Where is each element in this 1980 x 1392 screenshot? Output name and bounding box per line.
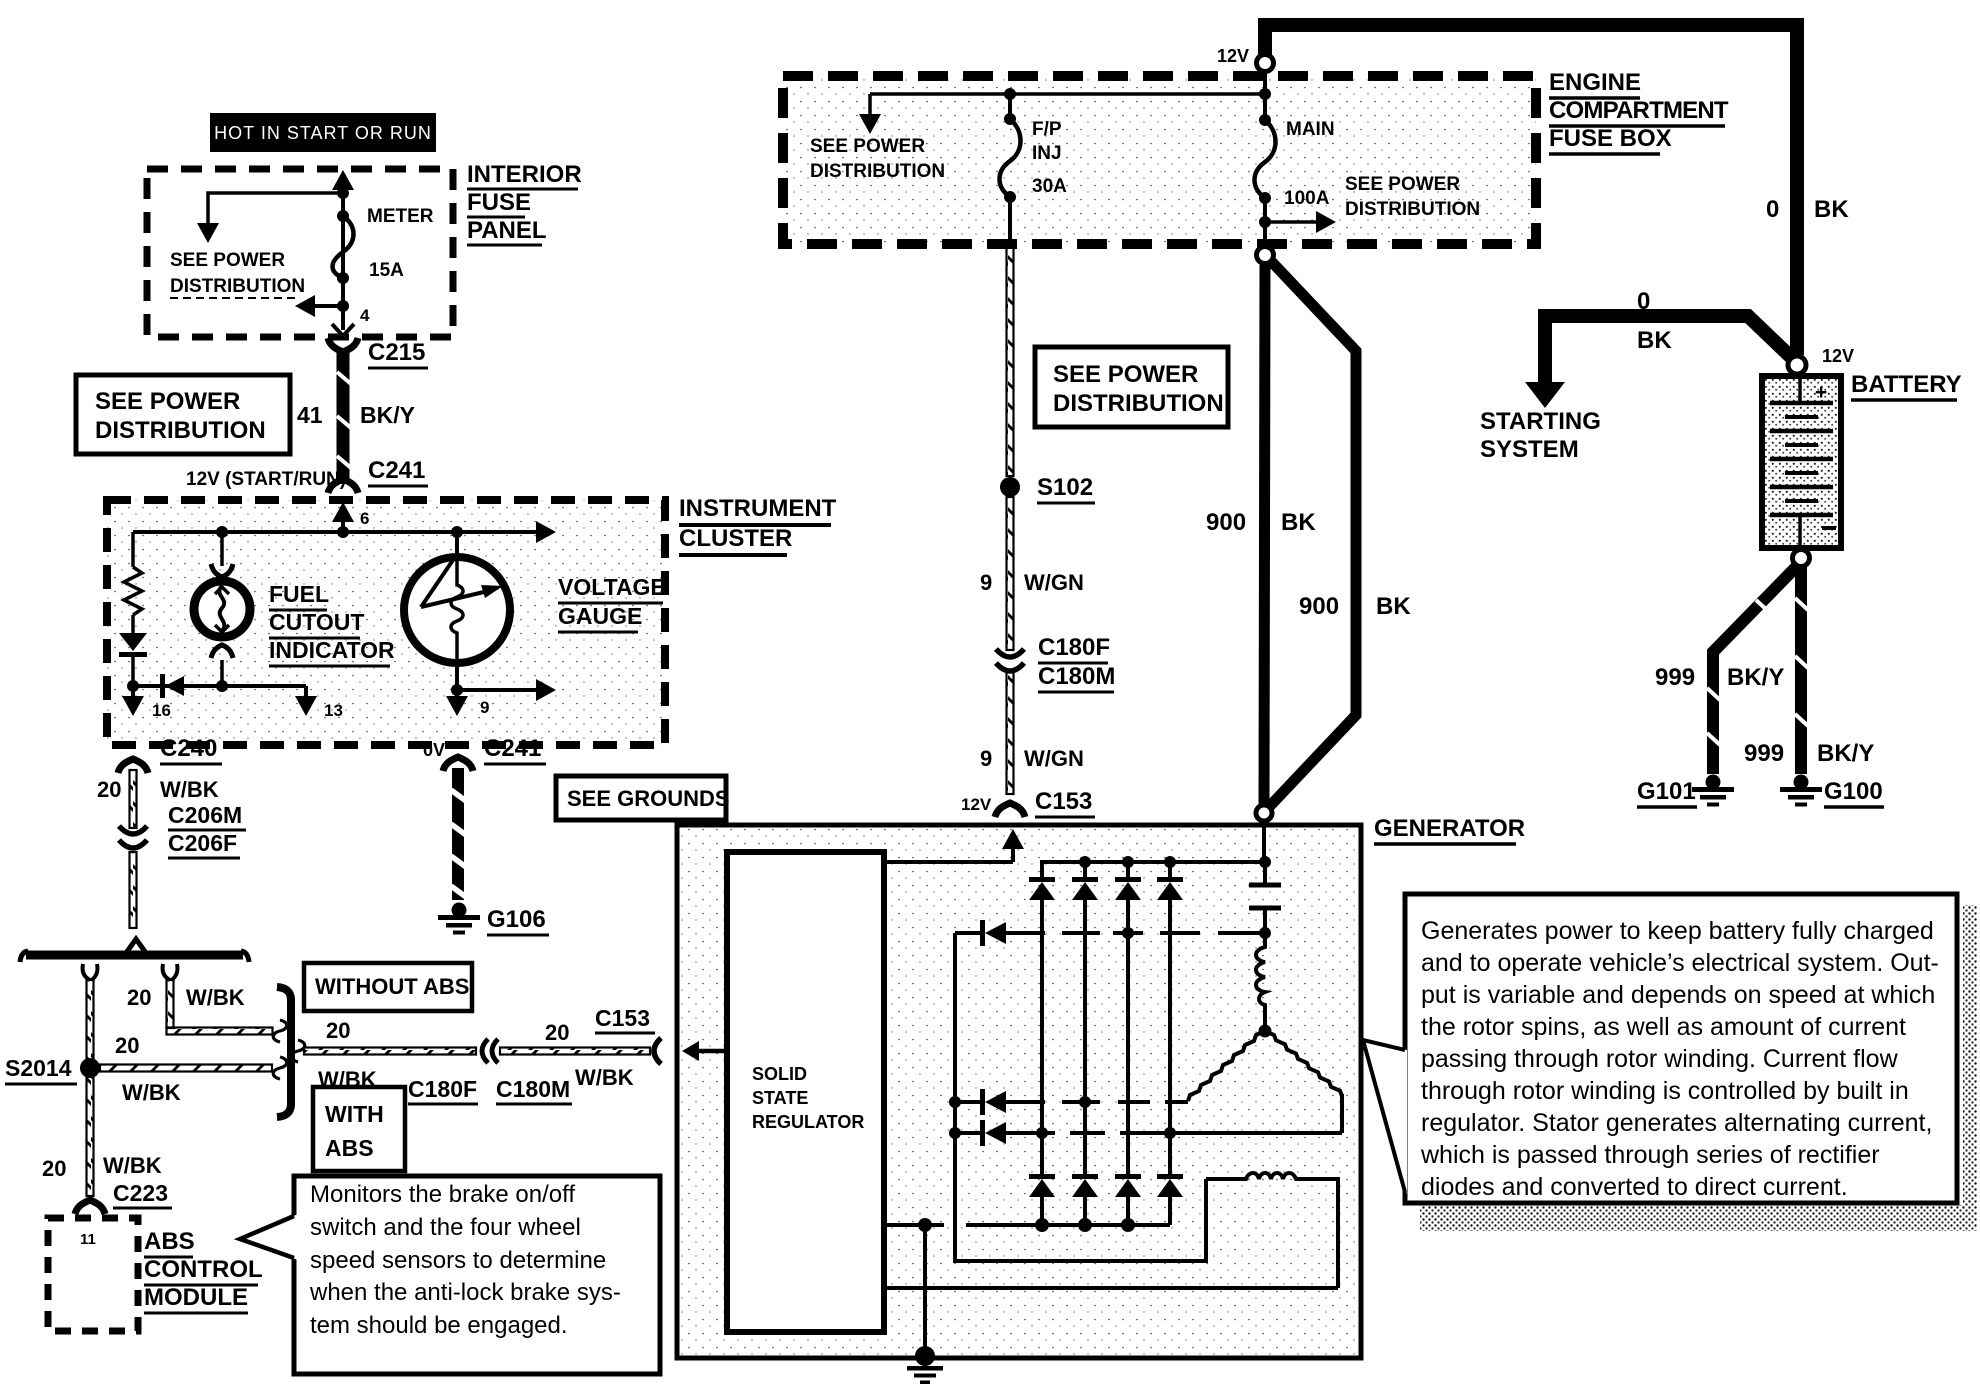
svg-text:BK: BK	[1376, 593, 1411, 620]
svg-text:switch and the four wheel: switch and the four wheel	[310, 1214, 581, 1241]
svg-text:C223: C223	[113, 1180, 168, 1206]
wire pin 4 exit with left arrow	[295, 278, 370, 336]
svg-text:FUSE: FUSE	[467, 189, 531, 216]
diode (rectifier top 4)	[1157, 862, 1183, 1176]
ABS control module box	[48, 1218, 138, 1331]
stator winding	[1188, 1025, 1342, 1134]
svg-text:30A: 30A	[1032, 176, 1067, 197]
diode (rectifier bottom 3)	[1115, 1174, 1141, 1225]
svg-text:INJ: INJ	[1032, 143, 1062, 164]
wire 20 W/BK C223	[113, 1180, 172, 1208]
svg-text:0: 0	[1766, 196, 1779, 223]
svg-text:999: 999	[1744, 740, 1784, 767]
svg-text:STARTING: STARTING	[1480, 408, 1601, 435]
wire 9 W/GN (fuse to S102)	[1007, 246, 1014, 476]
label INTERIOR FUSE PANEL	[467, 161, 582, 245]
svg-text:C180M: C180M	[496, 1076, 570, 1102]
svg-text:ABS: ABS	[325, 1135, 374, 1161]
svg-text:4: 4	[360, 306, 370, 325]
svg-text:100A: 100A	[1284, 188, 1330, 209]
svg-text:W/BK: W/BK	[318, 1067, 377, 1092]
svg-text:VOLTAGE: VOLTAGE	[558, 574, 666, 600]
svg-text:SEE POWER: SEE POWER	[810, 136, 925, 157]
wire 20 W/BK (C240 to splice)	[97, 770, 219, 928]
svg-text:20: 20	[97, 777, 121, 802]
svg-text:W/BK: W/BK	[103, 1153, 162, 1178]
svg-text:Monitors the brake on/off: Monitors the brake on/off	[310, 1181, 575, 1208]
ground G100	[1780, 775, 1884, 808]
connector circle (below MAIN fuse)	[1257, 247, 1274, 264]
splice S102	[1000, 474, 1095, 503]
instrument cluster box	[107, 500, 665, 745]
diode (rectifier top 1)	[1029, 877, 1055, 1176]
svg-text:INSTRUMENT: INSTRUMENT	[679, 495, 837, 522]
fuse METER 15A	[333, 206, 434, 284]
svg-text:W/GN: W/GN	[1024, 570, 1084, 595]
svg-text:Generates power to keep batter: Generates power to keep battery fully ch…	[1421, 917, 1934, 945]
wire field feed with diode	[955, 920, 1271, 946]
svg-text:W/GN: W/GN	[1024, 746, 1084, 771]
wire 9 W/GN (C180M to C153)	[980, 672, 1084, 794]
svg-text:PANEL: PANEL	[467, 217, 547, 244]
wire 999 BK/Y (to G100)	[1744, 566, 1874, 774]
svg-text:C241: C241	[368, 457, 425, 484]
engine compartment fuse box	[783, 76, 1536, 244]
svg-text:999: 999	[1655, 664, 1695, 691]
wire 0 BK (top feed to battery)	[1265, 25, 1849, 355]
svg-text:SEE GROUNDS: SEE GROUNDS	[567, 786, 730, 811]
svg-text:regulator. Stator generates a: regulator. Stator generates alternating …	[1421, 1109, 1932, 1137]
resistor (cluster left branch)	[124, 532, 142, 633]
svg-text:C206F: C206F	[168, 830, 237, 856]
options bracket	[277, 987, 291, 1117]
diode (rectifier bottom 1)	[1029, 1174, 1055, 1225]
svg-text:put is variable and depends on: put is variable and depends on speed at …	[1421, 981, 1935, 1009]
callout monitors brake text box	[240, 1176, 660, 1374]
diode (rectifier top 2)	[1072, 862, 1098, 1176]
box SEE POWER DISTRIBUTION (left)	[76, 375, 290, 454]
diode (cluster bottom horizontal)	[127, 674, 306, 698]
label HOT IN START OR RUN	[210, 113, 436, 152]
svg-text:G100: G100	[1824, 778, 1883, 805]
svg-text:CONTROL: CONTROL	[144, 1256, 263, 1283]
svg-text:12V: 12V	[961, 795, 992, 814]
label ABS CONTROL MODULE	[144, 1228, 263, 1313]
wire S2014 drop from bus	[42, 964, 162, 1196]
svg-text:20: 20	[115, 1033, 139, 1058]
ground G101	[1637, 775, 1734, 808]
svg-text:BK: BK	[1814, 196, 1849, 223]
solid state regulator box	[727, 852, 884, 1332]
callout generator description box	[1363, 894, 1977, 1231]
ground (generator)	[907, 1346, 943, 1384]
svg-text:DISTRIBUTION: DISTRIBUTION	[1345, 199, 1480, 220]
svg-text:ABS: ABS	[144, 1228, 195, 1255]
connector C180F C180M (vertical)	[996, 634, 1115, 692]
svg-text:SYSTEM: SYSTEM	[1480, 436, 1579, 463]
wire 900 BK (right run)	[1269, 260, 1411, 807]
svg-text:0: 0	[1637, 288, 1650, 315]
svg-text:0V: 0V	[423, 740, 445, 760]
connector circle 12V	[1257, 55, 1274, 72]
svg-text:6: 6	[360, 509, 369, 528]
svg-text:900: 900	[1206, 509, 1246, 536]
wire 900 BK (left run)	[1206, 263, 1316, 806]
svg-text:FUSE BOX: FUSE BOX	[1549, 125, 1672, 152]
wire starting system	[1525, 288, 1794, 408]
svg-text:STATE: STATE	[752, 1088, 808, 1108]
svg-text:through rotor winding is contr: through rotor winding is controlled by b…	[1421, 1077, 1909, 1105]
svg-text:COMPARTMENT: COMPARTMENT	[1549, 97, 1729, 124]
connector circle (battery bottom)	[1793, 550, 1810, 567]
diode (cluster left, pointing down)	[119, 633, 147, 686]
svg-text:BATTERY: BATTERY	[1851, 371, 1962, 398]
svg-text:F/P: F/P	[1032, 119, 1062, 140]
svg-text:12V (START/RUN): 12V (START/RUN)	[186, 469, 346, 490]
label SEE POWER DISTRIBUTION (fuse box left)	[810, 136, 945, 182]
svg-text:11: 11	[80, 1231, 96, 1248]
wire pin 16 exit	[122, 686, 171, 720]
voltage gauge	[404, 532, 510, 663]
svg-text:BK/Y: BK/Y	[1727, 664, 1784, 691]
svg-text:DISTRIBUTION: DISTRIBUTION	[95, 417, 266, 444]
svg-text:BK/Y: BK/Y	[1817, 740, 1874, 767]
diode (rectifier top 3)	[1115, 862, 1141, 1176]
label STARTING SYSTEM	[1480, 408, 1601, 463]
splice S2014	[5, 1055, 100, 1084]
svg-text:ENGINE: ENGINE	[1549, 69, 1641, 96]
box WITH ABS	[313, 1087, 405, 1171]
wire S2014 horizontal	[100, 1033, 287, 1105]
connector C153 (vertical, 12V)	[961, 788, 1095, 817]
svg-text:the rotor spins, as well as am: the rotor spins, as well as amount of cu…	[1421, 1013, 1906, 1041]
wire pin 9 exit with right arrow	[446, 663, 556, 717]
svg-text:16: 16	[152, 701, 171, 720]
rotor feed coil	[1256, 933, 1265, 1028]
svg-text:INDICATOR: INDICATOR	[269, 637, 395, 663]
svg-text:C241: C241	[484, 735, 541, 762]
wire 20 W/BK (C180M to C153)	[500, 1020, 650, 1090]
interior fuse panel box	[147, 169, 453, 337]
connector circle (generator top)	[1256, 805, 1272, 821]
wire 20 W/BK (bracket to C180F)	[291, 1018, 476, 1092]
label ENGINE COMPARTMENT FUSE BOX	[1549, 69, 1729, 154]
svg-text:METER: METER	[367, 206, 434, 227]
svg-text:G101: G101	[1637, 778, 1696, 805]
box SEE GROUNDS	[556, 776, 730, 820]
svg-text:DISTRIBUTION: DISTRIBUTION	[810, 161, 945, 182]
svg-text:diodes and converted to direct: diodes and converted to direct current.	[1421, 1173, 1848, 1201]
fuse F/P INJ 30A	[1000, 88, 1068, 246]
svg-text:tem should be engaged.: tem should be engaged.	[310, 1312, 568, 1339]
connector C241	[328, 457, 428, 493]
wire cluster top bus	[133, 521, 556, 543]
wire 999 BK/Y (to G101)	[1655, 566, 1797, 774]
battery	[1762, 376, 1841, 548]
generator box	[677, 825, 1361, 1358]
box SEE POWER DISTRIBUTION (middle)	[1035, 347, 1228, 427]
svg-text:C206M: C206M	[168, 802, 242, 828]
svg-text:SOLID: SOLID	[752, 1064, 807, 1084]
svg-text:12V: 12V	[1217, 46, 1249, 66]
diode (rectifier bottom 4)	[1157, 1174, 1183, 1225]
svg-text:C153: C153	[1035, 788, 1092, 815]
svg-text:SEE POWER: SEE POWER	[95, 388, 240, 415]
svg-text:SEE POWER: SEE POWER	[1345, 174, 1460, 195]
svg-text:DISTRIBUTION: DISTRIBUTION	[1053, 390, 1224, 417]
connector C180F C180M (horizontal)	[408, 1039, 572, 1104]
svg-text:when the anti-lock brake sys-: when the anti-lock brake sys-	[309, 1279, 621, 1306]
svg-text:W/BK: W/BK	[186, 985, 245, 1010]
svg-text:C240: C240	[160, 735, 217, 762]
wire field return loop	[955, 933, 1206, 1261]
connector C206M C206F	[119, 802, 246, 858]
connector C153 (generator)	[595, 1005, 661, 1064]
svg-text:G106: G106	[487, 906, 546, 933]
label INSTRUMENT CLUSTER	[679, 495, 837, 555]
svg-text:C215: C215	[368, 339, 425, 366]
wire regulator output rail	[884, 829, 1024, 862]
wire right drop from bus	[127, 964, 287, 1042]
label VOLTAGE GAUGE	[558, 574, 666, 632]
svg-text:which is passed through series: which is passed through series of rectif…	[1420, 1141, 1880, 1169]
svg-text:41: 41	[297, 402, 323, 428]
svg-text:GAUGE: GAUGE	[558, 603, 642, 629]
wire cluster entry pin 6	[332, 502, 369, 532]
svg-text:20: 20	[127, 985, 151, 1010]
svg-text:INTERIOR: INTERIOR	[467, 161, 582, 188]
fuel cutout indicator	[194, 532, 250, 686]
ground G106	[438, 903, 549, 936]
svg-text:C180F: C180F	[408, 1076, 477, 1102]
svg-text:9: 9	[980, 746, 992, 771]
svg-text:BK: BK	[1281, 509, 1316, 536]
svg-text:passing through rotor winding.: passing through rotor winding. Current f…	[1421, 1045, 1899, 1073]
box WITHOUT ABS	[304, 963, 472, 1011]
wire 41 BK/Y	[297, 352, 415, 484]
svg-text:C153: C153	[595, 1005, 650, 1031]
connector C215	[328, 338, 428, 368]
capacitor	[1249, 862, 1281, 933]
label 12V (START/RUN)	[186, 469, 346, 490]
wire rectifier bottom rail	[966, 1218, 1170, 1232]
wire stator phase A with diode	[949, 1089, 1188, 1115]
svg-text:20: 20	[545, 1020, 569, 1045]
svg-text:DISTRIBUTION: DISTRIBUTION	[170, 276, 305, 297]
svg-text:SEE POWER: SEE POWER	[1053, 361, 1198, 388]
svg-text:WITHOUT ABS: WITHOUT ABS	[315, 974, 469, 999]
svg-text:GENERATOR: GENERATOR	[1374, 815, 1525, 842]
svg-text:9: 9	[480, 698, 489, 717]
connector C240	[118, 735, 222, 773]
svg-text:WITH: WITH	[325, 1101, 384, 1127]
svg-text:W/BK: W/BK	[122, 1080, 181, 1105]
svg-text:S102: S102	[1037, 474, 1093, 501]
label FUEL CUTOUT INDICATOR	[269, 581, 395, 666]
splice bus bar	[20, 939, 249, 962]
svg-text:15A: 15A	[369, 260, 404, 281]
label 12V (fuse box top)	[1217, 46, 1249, 66]
rotor winding	[1206, 1173, 1338, 1288]
svg-text:SEE POWER: SEE POWER	[170, 250, 285, 271]
wire 0V to G106	[451, 768, 466, 900]
svg-text:13: 13	[324, 701, 343, 720]
svg-text:9: 9	[980, 570, 992, 595]
label GENERATOR	[1374, 815, 1525, 844]
svg-text:speed sensors to determine: speed sensors to determine	[310, 1247, 606, 1274]
svg-text:BK: BK	[1637, 327, 1672, 354]
svg-text:20: 20	[326, 1018, 350, 1043]
diode (rectifier bottom 2)	[1072, 1174, 1098, 1225]
svg-text:+: +	[1815, 381, 1827, 404]
svg-text:CLUSTER: CLUSTER	[679, 525, 792, 552]
svg-text:MAIN: MAIN	[1286, 119, 1335, 140]
svg-text:HOT IN START OR RUN: HOT IN START OR RUN	[214, 123, 432, 143]
connector C241 (cluster bottom)	[443, 735, 546, 771]
wire branch to SEE POWER DISTRIBUTION arrow	[197, 193, 343, 243]
svg-text:W/BK: W/BK	[160, 777, 219, 802]
wire 9 W/GN (S102 to C180F)	[980, 497, 1084, 650]
wire fuse panel vertical with up arrow	[332, 170, 354, 306]
svg-text:FUEL: FUEL	[269, 581, 329, 607]
svg-text:12V: 12V	[1822, 346, 1854, 366]
svg-text:REGULATOR: REGULATOR	[752, 1112, 864, 1132]
label BATTERY	[1851, 371, 1962, 400]
connector circle (battery top)	[1788, 346, 1854, 374]
label SEE POWER DISTRIBUTION (fuse box right)	[1345, 174, 1480, 220]
label SEE POWER DISTRIBUTION (fuse panel)	[170, 250, 305, 298]
svg-text:C180M: C180M	[1038, 663, 1115, 690]
svg-text:20: 20	[42, 1156, 66, 1181]
wire regulator field	[884, 1286, 1338, 1290]
svg-text:and to operate vehicle’s elect: and to operate vehicle’s electrical syst…	[1421, 949, 1939, 977]
svg-text:MODULE: MODULE	[144, 1284, 248, 1311]
wire C153 into regulator	[682, 1041, 727, 1061]
svg-text:900: 900	[1299, 593, 1339, 620]
fuse MAIN 100A	[1255, 88, 1337, 248]
connector C223	[75, 1200, 105, 1214]
svg-text:BK/Y: BK/Y	[360, 402, 415, 428]
wire pin 13 exit	[295, 686, 343, 720]
wire fuse box internal bus	[859, 71, 1265, 134]
svg-text:C180F: C180F	[1038, 634, 1110, 661]
svg-text:S2014: S2014	[5, 1055, 72, 1081]
svg-text:W/BK: W/BK	[575, 1065, 634, 1090]
wire regulator ground	[884, 1218, 944, 1356]
wire stator phase B with diode	[949, 1120, 1342, 1146]
svg-text:CUTOUT: CUTOUT	[269, 609, 364, 635]
wire rectifier output rail	[1042, 820, 1271, 880]
label 0V	[423, 740, 445, 760]
